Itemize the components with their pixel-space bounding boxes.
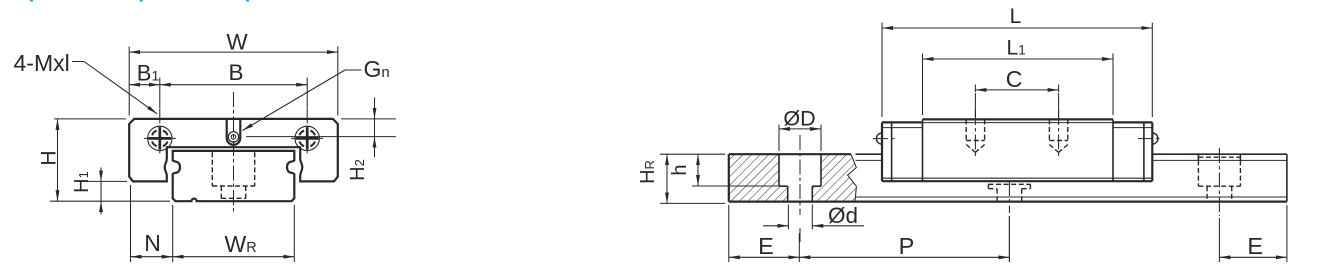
svg-text:4-Mxl: 4-Mxl [14,50,70,76]
dimension H line [57,119,59,201]
extension line counterbore depth [692,185,779,187]
dimension H1 upper arrow [100,168,102,182]
bolt hole center line [799,135,801,215]
svg-text:B: B [228,60,243,85]
dimension L1 line [923,58,1114,60]
rail counterbore under block (hidden) [988,183,1030,185]
dimension H2 line [374,119,376,137]
dimension WR line [173,256,295,258]
rail cross-section profile [173,151,295,201]
extension line block top right for H2 [341,118,396,120]
linear guide block cross-section outline [129,119,338,181]
dimension HR line [666,154,668,203]
svg-text:E: E [1247,233,1263,259]
svg-text:h: h [669,164,691,175]
block body/cap seam lines [923,122,1114,124]
extension line rail left for N WR [172,205,174,262]
grease hole Gn at block center [227,119,241,145]
rail bottom edge [855,201,1287,203]
grease nipple right [1152,133,1158,144]
rail groove line [856,159,883,161]
extension line rail right for WR [293,205,295,262]
dimension P line [799,256,1009,258]
extension line block left bottom for N [130,185,132,262]
rail top edge right of break [856,153,883,155]
svg-text:L: L [1010,5,1022,28]
extension lines for C [974,85,976,93]
block tapped hole left (hidden) [965,119,967,140]
cropped blue text descender 2 [139,0,142,2]
grease nipple left [876,133,882,144]
dimension W line [129,51,338,53]
extension line rail right end for E [1286,205,1288,262]
extension lines for OD [778,125,780,152]
svg-text:N: N [144,230,161,256]
extension lines for B [159,78,161,109]
dimension OD line [779,128,821,130]
svg-text:C: C [1006,66,1023,92]
svg-text:H: H [38,150,61,165]
rail section outline [729,153,851,155]
dimension E left line [729,256,800,258]
extension lines for L1 [922,54,924,116]
dimension N line [131,256,173,258]
svg-text:E: E [758,233,774,259]
extension line rail left end for E [728,205,730,262]
rail bottom chamfer line [856,196,1287,198]
dimension Od left arrow [763,225,788,227]
extension line rail bottom left [660,202,725,204]
extension line P right [1008,216,1010,262]
extension line rail bottom left [50,200,170,202]
svg-text:Ød: Ød [828,203,858,228]
dimension B line [160,84,307,86]
svg-text:ØD: ØD [783,106,815,130]
block side outline [881,122,883,181]
cropped blue text descender 3 [246,0,249,2]
rail section break line [848,154,857,201]
dimension H1 line [100,181,102,201]
dimension E right line [1219,256,1287,258]
dimension C line [975,89,1058,91]
extension lines for Od [787,205,789,230]
svg-text:P: P [899,233,915,259]
left view vertical center line [233,92,235,214]
leader line from Gn to grease hole [345,69,362,71]
extension line block bottom for H1 [78,180,127,182]
svg-text:W: W [226,29,248,54]
tapped hole M-left in block top [148,126,172,150]
dimension B1 line [129,84,160,86]
cropped blue text descender 1 [30,0,34,2]
leader line from 4-Mxl to tapped hole [72,61,84,63]
rail counterbore right (hidden) [1197,154,1199,160]
dimension h line [697,154,699,186]
extension line rail top left [660,153,725,155]
dimension H2 lower arrow [374,137,376,158]
rail counterbore hole (hidden, dashed) left view [211,152,213,186]
extension line bolt center for E P [798,233,800,262]
extension lines for L [881,23,883,118]
extension line block top left [54,118,126,120]
dimension Od right arrow [812,225,864,227]
extension lines for W [128,47,130,116]
dimension H2 upper arrow [374,98,376,119]
hatched rail longitudinal section [729,154,857,201]
dimension L line [882,27,1152,29]
extension line grease hole center for H2 [246,136,396,138]
counterbore hole edges in section [778,154,780,186]
tapped hole M-right in block top [295,126,319,150]
block tapped hole right (hidden) [1048,119,1050,140]
rail right end edge [1286,154,1288,201]
dimension H1 lower arrow [100,201,102,214]
